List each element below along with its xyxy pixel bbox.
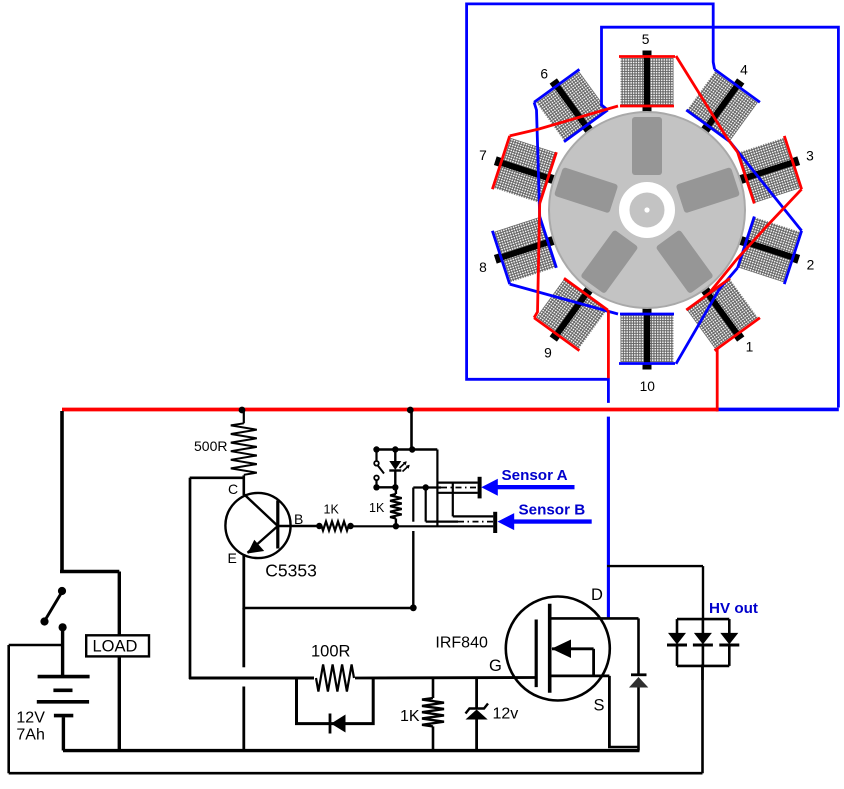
svg-text:100R: 100R xyxy=(311,643,351,661)
svg-text:S: S xyxy=(594,697,605,715)
svg-text:Sensor B: Sensor B xyxy=(519,502,586,519)
svg-text:5: 5 xyxy=(642,32,650,47)
svg-text:G: G xyxy=(489,657,502,675)
svg-text:1K: 1K xyxy=(369,501,385,515)
svg-text:10: 10 xyxy=(640,379,656,394)
svg-text:8: 8 xyxy=(479,260,487,275)
svg-text:C5353: C5353 xyxy=(265,561,317,581)
svg-text:C: C xyxy=(228,481,238,497)
svg-text:Sensor A: Sensor A xyxy=(502,467,568,484)
svg-text:12V: 12V xyxy=(16,710,45,727)
svg-text:6: 6 xyxy=(540,67,548,82)
svg-text:1K: 1K xyxy=(400,708,420,725)
svg-text:9: 9 xyxy=(544,346,552,361)
svg-text:4: 4 xyxy=(740,63,748,78)
svg-text:E: E xyxy=(228,550,237,566)
svg-text:7: 7 xyxy=(479,148,487,163)
svg-text:IRF840: IRF840 xyxy=(435,635,488,652)
svg-text:B: B xyxy=(294,511,303,527)
svg-text:LOAD: LOAD xyxy=(93,638,138,656)
svg-text:500R: 500R xyxy=(194,438,227,454)
svg-text:2: 2 xyxy=(807,258,815,273)
svg-text:3: 3 xyxy=(806,149,814,164)
svg-text:D: D xyxy=(591,586,603,604)
svg-text:1K: 1K xyxy=(324,503,340,517)
svg-text:1: 1 xyxy=(746,340,754,355)
svg-text:12v: 12v xyxy=(493,706,519,723)
svg-text:7Ah: 7Ah xyxy=(16,727,44,744)
svg-text:HV out: HV out xyxy=(709,600,758,617)
